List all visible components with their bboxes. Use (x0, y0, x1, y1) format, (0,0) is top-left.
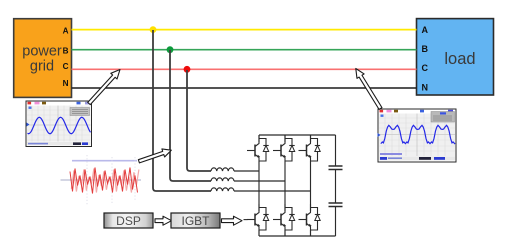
svg-text:A: A (63, 27, 69, 36)
svg-text:grid: grid (30, 59, 54, 75)
svg-text:IGBT: IGBT (181, 214, 210, 228)
power grid source block (14, 19, 72, 98)
block arrow from scope1 to phase C line (88, 70, 120, 105)
block arrow DSP to IGBT driver (155, 216, 172, 225)
IGBT Q5 with antiparallel diode D5 (leg2 bottom) (273, 204, 295, 230)
svg-text:B: B (63, 47, 69, 56)
inductor L1 (top coil) (211, 168, 234, 171)
inductor L3 (bottom coil) (211, 188, 234, 191)
svg-text:B: B (422, 44, 429, 54)
wire from L3 to inverter leg 3 midpoint (234, 190, 311, 192)
node dot on phase C (184, 66, 191, 73)
DC bus right vertical link (335, 135, 337, 236)
IGBT Q3 with antiparallel diode D3 (leg3 top) (299, 135, 321, 161)
IGBT Q6 with antiparallel diode D6 (leg3 bottom) (299, 204, 321, 230)
block arrow from scope2 to phase C line (356, 69, 382, 110)
leg 3 midpoint vertical wire (310, 161, 312, 204)
leg 2 midpoint vertical wire (284, 161, 286, 204)
load block (417, 19, 494, 95)
gate lead stub from driver arrow (244, 219, 248, 221)
harmonic current plot (red distorted waveform) (61, 155, 142, 205)
oscilloscope screenshot 2 (load-side distorted wave) (378, 109, 457, 162)
inductor L2 (middle coil) (211, 178, 234, 181)
wire phase B (green) (72, 49, 417, 51)
svg-text:power: power (22, 44, 62, 60)
IGBT Q2 with antiparallel diode D2 (leg2 top) (273, 135, 295, 161)
IGBT Q1 with antiparallel diode D1 (leg1 top) (247, 135, 269, 161)
wire tap from phase B down to filter inductor L2 (170, 50, 211, 181)
wire from L1 to inverter leg 1 midpoint (234, 170, 259, 172)
IGBT Q4 with antiparallel diode D4 (leg1 bottom) (247, 204, 269, 230)
svg-text:DSP: DSP (116, 214, 141, 228)
IGBT driver block (171, 213, 220, 228)
node dot on phase A (150, 26, 157, 33)
oscilloscope screenshot 1 (grid-side sine wave) (26, 101, 92, 147)
wire tap from phase A down to filter inductor L3 (153, 30, 211, 191)
wire tap from phase C down to filter inductor L1 (187, 70, 211, 171)
svg-text:A: A (422, 25, 429, 35)
capacitor C1 (upper DC link) (329, 166, 343, 170)
leg 1 midpoint vertical wire (258, 161, 260, 204)
svg-text:load: load (444, 50, 475, 68)
DC bus positive rail (top) (259, 134, 336, 136)
block arrow from harmonic plot to injection taps (138, 149, 171, 163)
svg-text:N: N (422, 82, 429, 92)
wire phase C (red) (72, 68, 417, 70)
wire phase A (yellow) (72, 29, 417, 31)
wire from L2 to inverter leg 2 midpoint (234, 180, 285, 182)
bottom cell emitter stubs to negative rail (259, 230, 311, 236)
block arrow IGBT driver to inverter gates (222, 216, 243, 225)
DSP controller block (104, 213, 153, 228)
svg-text:C: C (63, 62, 69, 71)
svg-text:N: N (63, 79, 69, 88)
wire neutral N (black) (72, 87, 417, 89)
node dot on phase B (167, 46, 174, 53)
capacitor C2 (lower DC link) (329, 203, 343, 207)
DC bus negative rail (bottom) (259, 235, 336, 237)
svg-text:C: C (422, 63, 429, 73)
